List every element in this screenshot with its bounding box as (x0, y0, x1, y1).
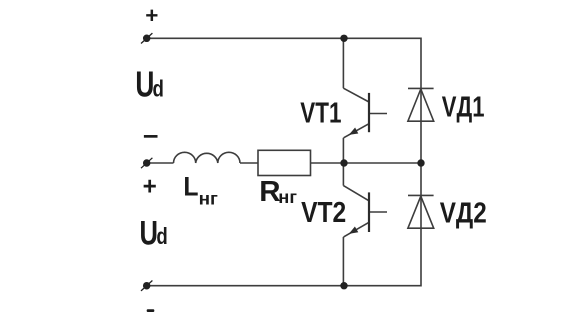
svg-text:VД1: VД1 (442, 92, 485, 124)
svg-text:d: d (156, 224, 167, 249)
svg-text:VT2: VT2 (301, 196, 346, 228)
svg-text:L: L (183, 172, 198, 201)
svg-text:нг: нг (278, 187, 297, 207)
svg-text:+: + (143, 173, 157, 200)
svg-text:U: U (140, 215, 158, 252)
svg-text:R: R (259, 176, 280, 208)
svg-text:нг: нг (199, 188, 219, 208)
svg-text:d: d (153, 77, 164, 102)
svg-text:−: − (143, 124, 159, 151)
svg-text:+: + (145, 3, 158, 28)
svg-text:U: U (135, 64, 154, 104)
svg-text:VT1: VT1 (300, 98, 341, 129)
svg-text:VД2: VД2 (440, 197, 487, 230)
